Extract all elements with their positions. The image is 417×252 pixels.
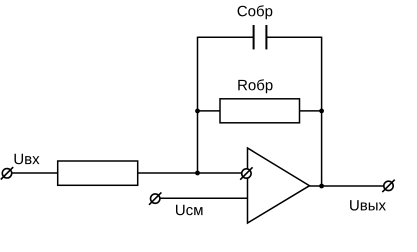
label Rобр [238,79,272,93]
label Uвых [350,200,386,210]
resistor R2 (Rобр) body [220,99,300,123]
junction: output wire to feedback line [319,184,324,189]
label Собр [238,5,273,19]
resistor R1 (input) body [58,161,138,185]
junction: feedback line joins inverting input wire [195,171,200,176]
terminal: Uсм slash [149,192,161,204]
wire: input terminal to R1 [7,172,58,174]
wire: top feedback, node A to capacitor left plate [198,36,254,38]
wire: right feedback vertical, node B down to output node [321,37,323,186]
wire: left feedback vertical, node A down to inverting input node [197,37,199,173]
terminal: Uвых output slash [382,180,394,192]
wire: op-amp output to Uвых terminal [310,185,385,187]
terminal: Uвх input slash [1,167,13,179]
wire: Uсм terminal to op-amp non-inverting input [155,197,247,199]
capacitor C1 (Собр) plates [254,25,267,49]
wire: capacitor right plate to node B [266,36,321,38]
terminal: Uвх input circle [2,169,11,178]
terminal: Uвых output circle [384,181,393,190]
wire: R1 to inverting input of op-amp [138,172,248,174]
junction: Rобр right lead to feedback line [319,109,324,114]
terminal: Uсм circle [151,194,160,203]
label Uвх [15,154,40,164]
terminal: inverting input slash [240,167,252,179]
op-amp U1 triangle [248,148,310,223]
terminal: inverting input circle [242,169,251,178]
label Uсм [176,205,202,215]
junction: Rобр left lead to feedback line [195,109,200,114]
wire: Rобр left lead [198,110,221,112]
wire: Rобр right lead [300,110,322,112]
